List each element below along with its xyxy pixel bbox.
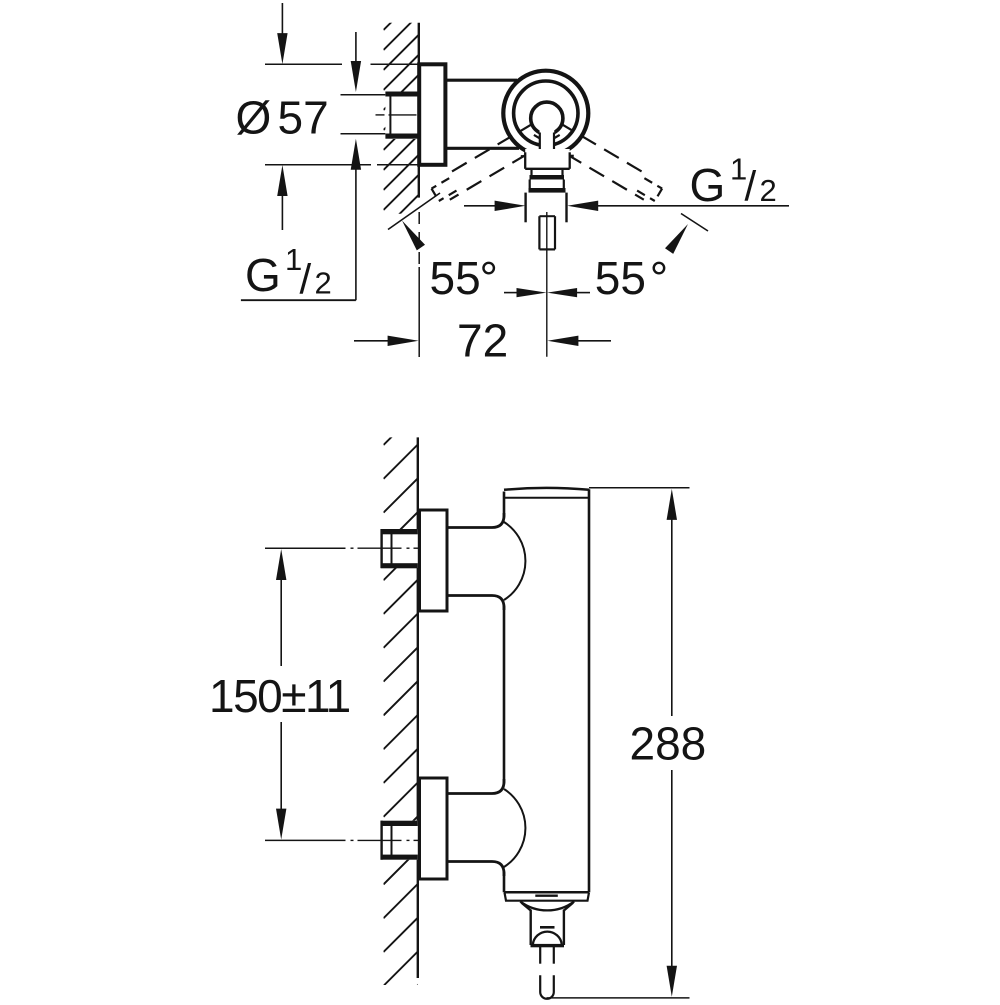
dimension 55° right: arrow at swivel axis [665,224,688,254]
swivel range dashed outline (left 55°) [521,124,533,131]
nut centerline (dash-dot) [376,114,385,116]
dimension 55° left: arrow at swivel axis [402,221,425,251]
lower valve dome (side view) [504,789,525,867]
lower S-union pipe (side view) [447,779,504,794]
mixer body cylinder (side view) [504,488,589,892]
upper S-union pipe (side view) [447,513,504,528]
spherical joint dome inside outlet [533,932,562,945]
valve body lower housing (top view) [525,149,570,169]
lever handle seen from top [540,124,555,168]
outlet neck (top view) [530,169,532,176]
wall surface line (side view) [417,437,419,978]
upper valve dome (side view) [504,522,525,600]
lower escutcheon flange (side view) [420,778,448,879]
dimension 72: right arrow [547,336,578,346]
dimension G1/2 left: leader line [241,299,356,301]
outlet nut upper band [530,175,565,180]
dimension 288: extension lines [589,487,690,489]
inlet shank thread lines behind wall [341,94,386,96]
svg-text:2: 2 [315,266,332,301]
wall hatching (side view) [384,403,426,1005]
svg-text:57: 57 [278,91,329,143]
lower nut centerline (dash-dot) [351,839,354,841]
lower inlet hex nut (side view) [381,821,418,860]
svg-text:°: ° [650,252,668,304]
hose nipple (top view) [539,216,555,249]
dimension 288: dimension line with arrows [667,489,677,520]
svg-text:/: / [745,163,757,210]
outlet funnel (side view) [520,901,574,910]
swivel range dashed outline (right 55°) [562,124,574,131]
hose nipple with break (side view) [539,947,541,964]
svg-text:72: 72 [457,315,508,367]
valve body middle circle [514,81,578,145]
dimension G1/2 right: left arrow at pipe [464,205,497,207]
connection pipe from flange to valve body (top view) [445,79,517,82]
svg-text:55: 55 [595,252,646,304]
svg-text:150±11: 150±11 [209,670,350,722]
dimension 150±11: dimension line with arrows [276,549,286,580]
dimension Ø57: top arrow [281,3,283,36]
dimension Ø57: extension lines [265,63,342,65]
dimension Ø57: bottom arrow [277,165,287,196]
svg-text:G: G [245,249,281,301]
dimension 55° right: arrow at centerline [547,288,577,297]
upper inlet hex nut (side view) [381,529,418,568]
swivel axis extension line (right) [681,214,708,232]
svg-text:°: ° [480,252,498,304]
outlet nut body [529,180,531,189]
swivel axis extension line (left) [388,193,440,230]
dimension G1/2 right: leader with arrow [567,201,598,211]
svg-text:2: 2 [760,173,777,208]
dimension 150±11: extension lines [265,547,346,549]
valve body outer circle (top view) [503,71,588,156]
outlet cylinder / union nut (side view) [530,910,532,946]
knob circle (lever base, top view) [531,102,563,134]
outlet centerline (top view) [546,212,548,357]
svg-text:288: 288 [630,718,707,770]
svg-text:Ø: Ø [236,91,272,143]
upper nut centerline (dash-dot) [351,547,354,549]
body bottom band (side view) [505,893,590,901]
hex nut on inlet (top view) [385,92,417,140]
upper escutcheon flange (side view) [420,510,448,611]
dimension 72: wall-side dashed extension [418,212,420,224]
dimension G1/2 left: arrows at nut [355,32,357,64]
svg-text:/: / [300,256,312,303]
dimension 72: wall-side solid extension [418,267,420,357]
escutcheon flange Ø57 (top view) [419,64,445,165]
svg-text:G: G [690,159,726,211]
dimension 72: left arrow [354,340,388,342]
outlet pipe G1/2 (top view) [524,193,526,223]
dimension 55° left: arrow at centerline [504,292,517,294]
outlet nut lower band [529,188,566,193]
svg-text:55: 55 [430,252,481,304]
wall surface line (top view) [418,23,420,198]
wall hatching (top view) [384,0,426,230]
